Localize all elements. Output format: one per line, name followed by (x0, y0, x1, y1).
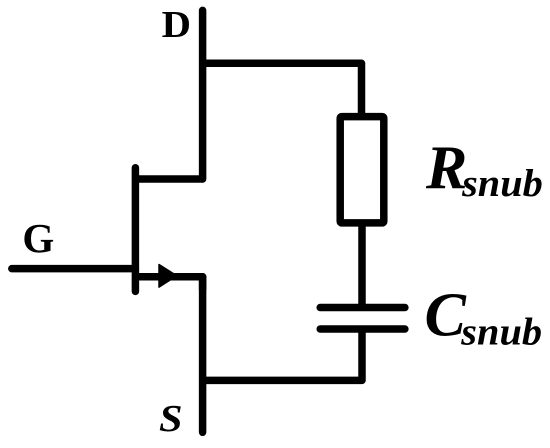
wire: capacitor to source rail (down then left) (203, 329, 362, 380)
arrowhead on source lead (159, 265, 177, 288)
wire: gate lead (12, 265, 136, 273)
wire: drain terminal vertical (199, 10, 207, 179)
svg-text:G: G (22, 215, 54, 261)
wire: drain to snubber top (horizontal then down to resistor) (203, 63, 362, 113)
svg-text:S: S (159, 397, 183, 440)
wire: bar to source (with corner down) (137, 277, 203, 290)
svg-text:snub: snub (461, 162, 543, 205)
capacitor C_snub bottom plate (320, 325, 405, 333)
wire: resistor to capacitor (358, 223, 366, 308)
svg-text:D: D (162, 3, 191, 45)
capacitor C_snub top plate (320, 304, 405, 312)
wire: bar to drain connector (135, 175, 202, 183)
svg-text:snub: snub (460, 310, 542, 353)
wire: source terminal vertical (199, 277, 207, 433)
svg-text:R: R (425, 134, 467, 202)
transistor gate bar (132, 168, 140, 292)
svg-text:C: C (425, 281, 467, 349)
resistor R_snub body (340, 117, 384, 223)
